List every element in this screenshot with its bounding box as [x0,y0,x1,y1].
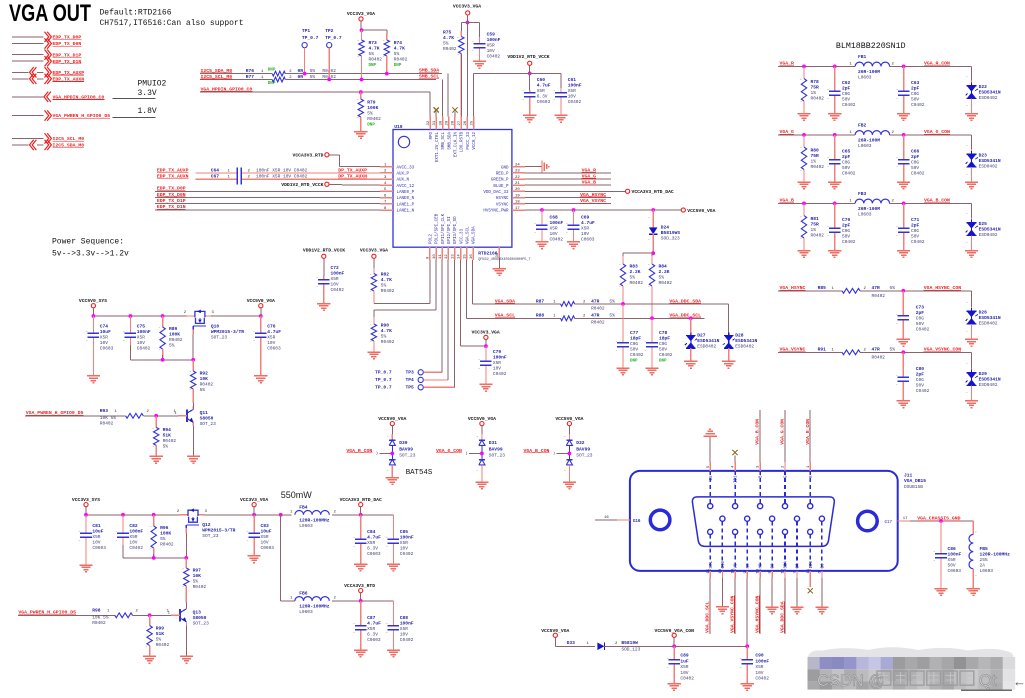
svg-text:C82: C82 [129,523,138,529]
svg-text:C0402: C0402 [550,237,564,243]
wire pin27 stub to R75 [460,54,462,117]
svg-text:5%: 5% [156,637,162,643]
svg-text:100nF X5R 10V C0402: 100nF X5R 10V C0402 [256,168,308,174]
svg-text:R0402: R0402 [200,382,214,388]
svg-text:26R-100M: 26R-100M [858,69,880,75]
ground under FB5 [967,589,980,596]
junction at 123,515 [121,513,125,517]
svg-text:R77: R77 [246,74,255,80]
svg-text:18pF: 18pF [659,336,670,342]
wire I2C5_SCL_M0 bus [200,80,442,117]
svg-text:D27: D27 [697,333,706,339]
svg-text:TP_0.7: TP_0.7 [302,35,319,41]
svg-text:R0402: R0402 [811,164,825,170]
svg-text:16: 16 [604,516,609,520]
svg-text:5%: 5% [193,579,199,585]
svg-text:26R-100M: 26R-100M [858,138,880,144]
junction at 904,203 [902,202,906,206]
junction at 747,646 [745,644,749,648]
test point TP1 [302,28,319,74]
svg-text:4.7uF: 4.7uF [581,220,595,226]
wire VGA_R_CON to pin1 [805,410,811,471]
svg-text:X5R: X5R [261,534,269,540]
svg-text:X5R: X5R [137,335,145,341]
svg-text:15: 15 [464,254,468,259]
svg-text:ESD5341N: ESD5341N [979,226,1001,232]
svg-text:2pF: 2pF [911,85,920,91]
svg-text:C81: C81 [92,523,101,529]
svg-text:C79: C79 [493,349,502,355]
svg-text:X5R: X5R [487,43,495,49]
svg-text:VCC3V3_VGA: VCC3V3_VGA [360,248,388,254]
wire VGA_HSYNC row [778,291,972,307]
svg-text:100nF: 100nF [400,621,414,627]
svg-text:C60: C60 [537,77,546,83]
svg-text:1.8V: 1.8V [138,107,157,116]
junction at 261,316 [259,314,263,318]
svg-text:100nF: 100nF [400,535,414,541]
svg-text:VGA_SDA: VGA_SDA [473,226,477,244]
ground under C84 [354,564,367,571]
ground under Q13 [180,656,193,663]
svg-text:10K 5%: 10K 5% [100,415,117,421]
svg-text:VCCK_12: VCCK_12 [473,132,477,150]
svg-text:R0402: R0402 [100,421,114,427]
wire VGA_B row [778,203,972,217]
svg-text:10V: 10V [137,340,145,346]
svg-text:10V: 10V [92,540,100,546]
power VCC5V0_VGA_CON [655,628,695,647]
svg-text:12: 12 [445,254,449,259]
svg-text:5%: 5% [630,275,636,281]
capacitor C86 [934,521,962,589]
resistor R98 [92,608,171,627]
svg-text:10uF: 10uF [92,529,103,535]
svg-text:BAV99: BAV99 [399,446,413,452]
ground under C60 [523,115,536,122]
svg-text:4.7K: 4.7K [443,35,454,41]
ground pin10 [716,571,729,614]
svg-text:R91: R91 [818,347,827,353]
svg-text:C0603: C0603 [537,99,551,105]
junction at 486,346 [484,344,488,348]
connector top pin names [710,475,814,486]
capacitor C73 [896,291,930,340]
svg-text:47R: 47R [872,285,881,291]
svg-text:C71: C71 [911,217,920,223]
svg-text:G7: G7 [797,563,801,569]
svg-text:R80: R80 [811,147,820,153]
junction at 904,135 [902,133,906,137]
svg-text:ESD0402: ESD0402 [979,163,998,169]
svg-text:50V: 50V [842,165,850,171]
svg-text:C76: C76 [267,324,276,330]
port EDP_TX_D1N [12,56,81,66]
svg-text:5%: 5% [310,74,316,80]
ground pin6 [815,571,828,614]
svg-text:C0G: C0G [916,315,924,321]
junction at 904,66 [902,65,906,69]
svg-text:47R: 47R [591,298,600,304]
svg-text:L0603: L0603 [858,212,872,218]
label 550mW [281,490,313,500]
junction at 569,453 [568,452,572,456]
junction at 835,135 [833,133,837,137]
junction at 941,521 [939,519,943,523]
ground under C79 [479,384,492,391]
ground under C74 [87,376,100,383]
wire pin13 VGA_HSYNC_CON [754,571,760,634]
svg-text:C0G: C0G [911,159,919,165]
svg-text:U10: U10 [394,124,403,130]
no-connect pin11 [808,571,813,593]
svg-text:POL2: POL2 [429,233,433,244]
svg-text:1uF: 1uF [680,658,689,664]
label VGA_HSYNC_CON [924,285,962,291]
junction at 154,558 [152,556,156,560]
svg-text:5%: 5% [443,41,449,47]
svg-text:GND: GND [501,166,509,170]
svg-text:18pF: 18pF [630,336,641,342]
svg-text:SOT_23: SOT_23 [576,453,593,459]
svg-text:EXT1.2V_CTRL: EXT1.2V_CTRL [436,132,440,163]
svg-text:R73: R73 [369,40,378,46]
svg-text:D28: D28 [735,333,744,339]
svg-text:DNP: DNP [630,360,638,364]
svg-text:SOT_23: SOT_23 [489,453,506,459]
wire VCC3V3 node to R75/C59/pin26 [461,23,479,117]
ferrite bead FB2 [850,123,895,149]
capacitor C72 [316,265,344,303]
svg-text:C0603: C0603 [261,545,275,551]
resistor R79 [357,92,381,131]
junction at 86,515 [84,513,88,517]
U10 pins [380,117,525,269]
wire 5V rail [93,315,260,317]
svg-text:TP_0.7: TP_0.7 [375,385,392,391]
svg-text:C66: C66 [911,148,920,154]
label RTD2166 [478,251,498,257]
svg-text:X5R: X5R [493,360,501,366]
ground under C69 [567,242,580,249]
resistor R87 [495,298,615,311]
svg-text:4.7K: 4.7K [381,277,392,283]
svg-text:VCC_33: VCC_33 [460,228,464,244]
svg-text:G10: G10 [722,560,726,568]
svg-text:2.2K: 2.2K [659,269,670,275]
port EDP_TX_D1P [12,50,81,60]
svg-text:4.7K: 4.7K [369,46,380,52]
svg-text:C0402: C0402 [493,371,507,377]
svg-text:100nF X5R 10V C0402: 100nF X5R 10V C0402 [256,174,308,180]
transistor Q13 [168,603,210,627]
svg-text:5%: 5% [163,444,169,450]
ground under R78 [797,114,810,121]
svg-text:R83: R83 [630,264,639,270]
svg-text:1%: 1% [811,90,817,96]
svg-text:D25: D25 [979,221,988,227]
svg-text:C73: C73 [916,304,925,310]
svg-text:R0402: R0402 [872,355,886,361]
svg-text:R85: R85 [818,285,827,291]
svg-text:C0402: C0402 [916,326,930,332]
svg-text:C0603: C0603 [92,545,106,551]
svg-text:VCC3V3_VGA: VCC3V3_VGA [240,497,268,503]
label VGA_VSYNC [780,347,806,353]
svg-text:BAT54S: BAT54S [406,469,433,477]
svg-text:VSYNC: VSYNC [496,203,509,207]
svg-text:C0402: C0402 [400,637,414,643]
wire VGA_G_CON to pin2 [780,410,786,471]
svg-text:GPI3/SPI_SO: GPI3/SPI_SO [453,216,458,244]
svg-text:29: 29 [446,120,450,125]
svg-text:26R-100M: 26R-100M [858,206,880,212]
svg-text:D23: D23 [979,152,988,158]
svg-text:ESD0402: ESD0402 [979,320,998,326]
svg-text:R0402: R0402 [591,305,605,311]
ground under C66 [897,182,910,189]
junction at 653,210 [651,208,655,212]
ferrite bead FB4 [290,504,337,529]
svg-text:10V: 10V [581,231,589,237]
svg-text:D31: D31 [489,440,498,446]
label VGA_DDC_SCL [669,313,701,319]
diode D23 [966,144,1001,182]
label 1.8V [112,107,157,118]
svg-text:5%: 5% [609,313,615,319]
svg-text:2pF: 2pF [911,154,920,160]
svg-text:X5R: X5R [331,276,339,282]
power VCC5V0_VGA at D30 [378,416,406,434]
label VGA_G_CON [924,129,950,135]
junction at 653,253 [651,251,655,255]
test point TP5 [375,260,454,391]
svg-text:R0402: R0402 [443,46,457,52]
connector pin circles [708,471,825,571]
resistor R92 [189,360,213,403]
svg-text:ESD0402: ESD0402 [697,344,716,350]
svg-text:X5R: X5R [948,557,956,563]
svg-text:D26: D26 [979,309,988,315]
svg-text:FB2: FB2 [858,123,867,129]
junction at 482,453 [480,452,484,456]
junction at 387,74 [385,72,389,76]
svg-text:5%: 5% [659,275,665,281]
ground under C68 [535,242,548,249]
svg-text:5%: 5% [160,536,166,542]
junction at 542,210 [540,208,544,212]
svg-text:10V: 10V [550,231,558,237]
wire EDP_TX_D0N [155,192,380,198]
junction at 93,316 [92,314,96,318]
svg-text:100K: 100K [367,105,378,111]
svg-text:75R: 75R [811,84,820,90]
junction at 804,135 [802,133,806,137]
wire R82 to pin9 [374,260,430,303]
svg-text:R0402: R0402 [394,57,408,63]
svg-text:C0603: C0603 [948,568,962,574]
label PMUIO2 3.3V [112,80,166,99]
junction at 835,66 [833,65,837,69]
svg-text:R81: R81 [811,216,820,222]
svg-text:C70: C70 [842,217,851,223]
svg-text:X5R: X5R [537,88,545,94]
svg-text:C0402: C0402 [630,352,644,358]
svg-text:C89: C89 [680,653,689,659]
diode D28 [723,332,758,361]
svg-text:X5R: X5R [92,534,100,540]
resistor R88 [495,313,615,326]
label QFN32 footprint [478,258,531,262]
port VGA_PWREN_H_GPIO0_D5 [12,110,110,120]
diode D33 [567,640,675,652]
ferrite bead FB5 [969,521,1010,589]
ground under C71 [897,251,910,258]
junction at 835,203 [833,202,837,206]
svg-text:R84: R84 [659,264,668,270]
svg-text:10V: 10V [755,670,763,676]
wire Q11 emitter to gnd [192,426,194,457]
capacitor C74 [86,316,114,376]
resistor R81 [800,203,824,250]
ground under Q11 [187,456,200,463]
svg-text:VCCA3V3_RTD_DAC: VCCA3V3_RTD_DAC [340,497,382,503]
svg-text:SOT_23: SOT_23 [202,533,219,539]
capacitor C66 [896,135,925,182]
power VCC3V3_VGA at C79 [472,329,500,346]
resistor R90 [370,317,395,352]
svg-text:LDO_RSTB: LDO_RSTB [461,132,465,153]
test point TP4 [375,260,448,383]
svg-text:VGA_SCL: VGA_SCL [467,226,471,244]
svg-text:BAV99: BAV99 [576,446,590,452]
ground under C70 [828,251,841,258]
svg-text:C61: C61 [568,77,577,83]
wire VGA_SCL row [466,260,704,318]
svg-text:X5R: X5R [755,664,763,670]
resistor R97 [182,558,206,603]
svg-text:TP3: TP3 [406,369,415,375]
svg-text:C0402: C0402 [137,346,151,352]
resistor R77 [201,74,337,86]
label BAT54S [406,469,433,477]
resistor R83 [619,256,643,304]
ground under C88 [387,650,400,657]
svg-text:C59: C59 [487,32,496,38]
ground under C59 [473,61,486,68]
svg-text:ESD5341N: ESD5341N [979,158,1001,164]
junction at 193,360 [191,358,195,362]
svg-text:C0402: C0402 [911,239,925,245]
svg-text:10uF: 10uF [100,329,111,335]
svg-text:X5R: X5R [400,540,408,546]
svg-text:32: 32 [427,120,431,125]
svg-text:SMB_SDA: SMB_SDA [448,132,452,150]
svg-text:ESD0402: ESD0402 [979,232,998,238]
svg-text:C0G: C0G [630,341,638,347]
svg-text:TP4: TP4 [406,377,415,383]
diode D32 [564,434,593,482]
junction at 530,73 [528,72,532,76]
wire 3V3 rail [86,514,393,516]
svg-text:C90: C90 [755,653,764,659]
svg-text:C0402: C0402 [129,545,143,551]
test point TP3 [375,260,442,375]
ground under D25 [965,251,978,258]
svg-text:DNP: DNP [367,124,375,128]
ground EPAD [493,269,506,276]
capacitor C67 [157,174,380,185]
junction at 804,66 [802,65,806,69]
ground under C83 [248,556,261,563]
svg-text:100nF: 100nF [755,658,769,664]
svg-text:C68: C68 [550,215,559,221]
svg-text:DNP: DNP [659,360,667,364]
svg-text:2pF: 2pF [842,85,851,91]
svg-text:D33: D33 [567,640,576,646]
svg-text:100nF: 100nF [129,529,143,535]
svg-text:26: 26 [464,120,468,125]
resistor R78 [800,66,824,113]
junction at 674,646 [672,644,676,648]
svg-text:): ) [553,451,555,456]
svg-text:51K: 51K [156,631,165,637]
diode D25 [966,212,1001,250]
wire to C90/pin9 [674,645,747,647]
wire VGA_B_CON to pin3 [755,410,761,471]
capacitor C70 [827,203,856,250]
svg-text:Qt: Qt [979,672,997,690]
svg-text:C0603: C0603 [367,551,381,557]
ground under C72 [317,304,330,311]
diode D27 [685,318,720,361]
svg-text:DNP: DNP [394,64,402,68]
ground under C77 [616,368,629,375]
transistor Q12 [177,508,236,538]
svg-text:TP2: TP2 [325,28,334,34]
svg-text:TP_0.7: TP_0.7 [375,369,392,375]
svg-text:C65: C65 [842,148,851,154]
label VGA_B [780,198,795,204]
port EDP_TX_AUXN [12,74,84,84]
ground under C76 [254,376,267,383]
power VCCA3V3_RTD pin1 [293,153,380,167]
svg-text:C0402: C0402 [842,239,856,245]
svg-text:PMUIO2: PMUIO2 [138,80,167,89]
svg-text:50V: 50V [911,233,919,239]
resistor R84 [648,256,672,318]
ground under D32 [563,482,576,489]
ground under D27 [684,361,697,368]
capacitor C83 [247,515,275,556]
capacitor C78 [645,318,673,368]
ground under C65 [828,182,841,189]
svg-text:4.7uF: 4.7uF [367,535,381,541]
diode D29 [966,362,1001,401]
svg-text:G17: G17 [885,521,893,525]
svg-text:19: 19 [515,194,520,198]
svg-text:C0G: C0G [911,228,919,234]
power VCC3V3_VGA above R82 [360,248,388,268]
svg-text:6.3V: 6.3V [367,546,378,552]
wire VGA_B out [525,180,611,186]
ground under C87 [354,650,367,657]
port I2C5_SDA_M0 [12,140,84,150]
ground above pin5 [704,429,717,471]
svg-text:G16: G16 [633,520,641,524]
svg-text:R0402: R0402 [811,232,825,238]
svg-text:Default:RTD2166: Default:RTD2166 [100,9,172,18]
